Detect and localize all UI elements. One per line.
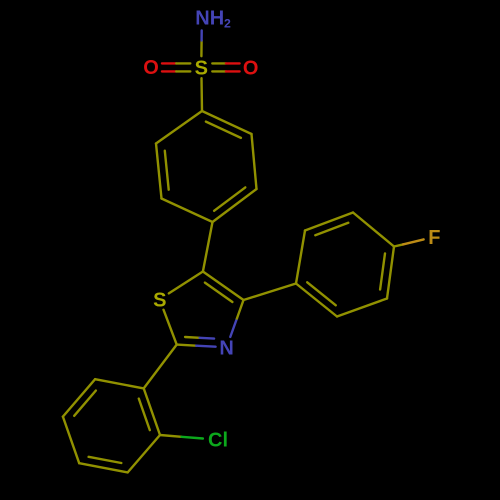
ring1 bond A5-A6 xyxy=(156,144,162,199)
ring3 bond D4-D5 xyxy=(63,417,79,464)
ring2 bond B3-B4 xyxy=(387,247,394,299)
ring3 bond D5-D6 xyxy=(63,379,95,416)
thiazole bond S1-C2 xyxy=(164,310,177,345)
ring3 bond D1-D2 xyxy=(144,388,160,435)
ring1 bond A2-A3 xyxy=(252,134,257,189)
ring3 bond D2-D3 xyxy=(128,435,160,472)
bond C-F xyxy=(394,239,424,246)
ring1 bond A6-A1 xyxy=(156,111,202,144)
thiazole bond C4=C5 inner line xyxy=(205,283,233,302)
ring2 bond B2-B3 xyxy=(337,299,387,317)
ring1 bond A1-A2 xyxy=(202,111,252,134)
svg-text:S: S xyxy=(153,289,166,311)
ring3 bond D3-D4 xyxy=(79,463,128,472)
ring3 double-bond inner line D5-D6 xyxy=(74,391,96,416)
ring2 bond B6-B1 xyxy=(296,231,305,284)
bond ring1-thiazole C5 xyxy=(203,222,213,272)
svg-text:O: O xyxy=(143,57,159,79)
svg-text:NH: NH xyxy=(195,8,224,30)
bond S=O right upper line xyxy=(212,62,239,64)
svg-text:2: 2 xyxy=(224,17,231,31)
bond S-C(ring1 top) xyxy=(200,78,203,111)
ring1 bond A3-A4 xyxy=(213,189,257,222)
ring1 double-bond inner line A3-A4 xyxy=(214,187,245,210)
ring2 bond B4-B5 xyxy=(353,213,394,247)
thiazole bond C5-S1 xyxy=(169,272,203,294)
svg-text:Cl: Cl xyxy=(208,429,228,451)
ring2 bond B1-B2 xyxy=(296,284,337,317)
svg-text:N: N xyxy=(219,337,233,359)
bond S=O right lower line xyxy=(212,70,239,72)
thiazole bond C4=C5 main line xyxy=(203,272,244,301)
ring3 double-bond inner line D1-D2 xyxy=(139,399,150,431)
thiazole bond C2=N3 inner line xyxy=(185,337,214,339)
bond S-N (sulfonamide) xyxy=(200,30,203,56)
thiazole bond N3-C4 xyxy=(230,300,243,337)
ring3 double-bond inner line D3-D4 xyxy=(89,457,122,463)
svg-text:O: O xyxy=(243,57,259,79)
ring2 double-bond inner line B5-B6 xyxy=(315,223,348,235)
ring1 double-bond inner line A5-A6 xyxy=(165,151,169,190)
bond S=O left lower line xyxy=(162,70,190,72)
bond S=O left upper line xyxy=(162,62,190,64)
bond thiazole C2-ring3 xyxy=(144,345,177,389)
ring2 bond B5-B6 xyxy=(305,213,353,231)
thiazole bond C2=N3 main line xyxy=(177,345,216,347)
ring1 bond A4-A5 xyxy=(162,199,213,223)
ring2 double-bond inner line B1-B2 xyxy=(307,282,336,305)
svg-text:S: S xyxy=(195,57,208,79)
bond thiazole C4-ring2 xyxy=(244,284,297,301)
ring1 double-bond inner line A1-A2 xyxy=(206,122,241,138)
ring3 bond D6-D1 xyxy=(95,379,144,388)
ring2 double-bond inner line B3-B4 xyxy=(380,253,385,289)
svg-text:F: F xyxy=(428,227,440,249)
bond C-Cl xyxy=(160,435,203,439)
